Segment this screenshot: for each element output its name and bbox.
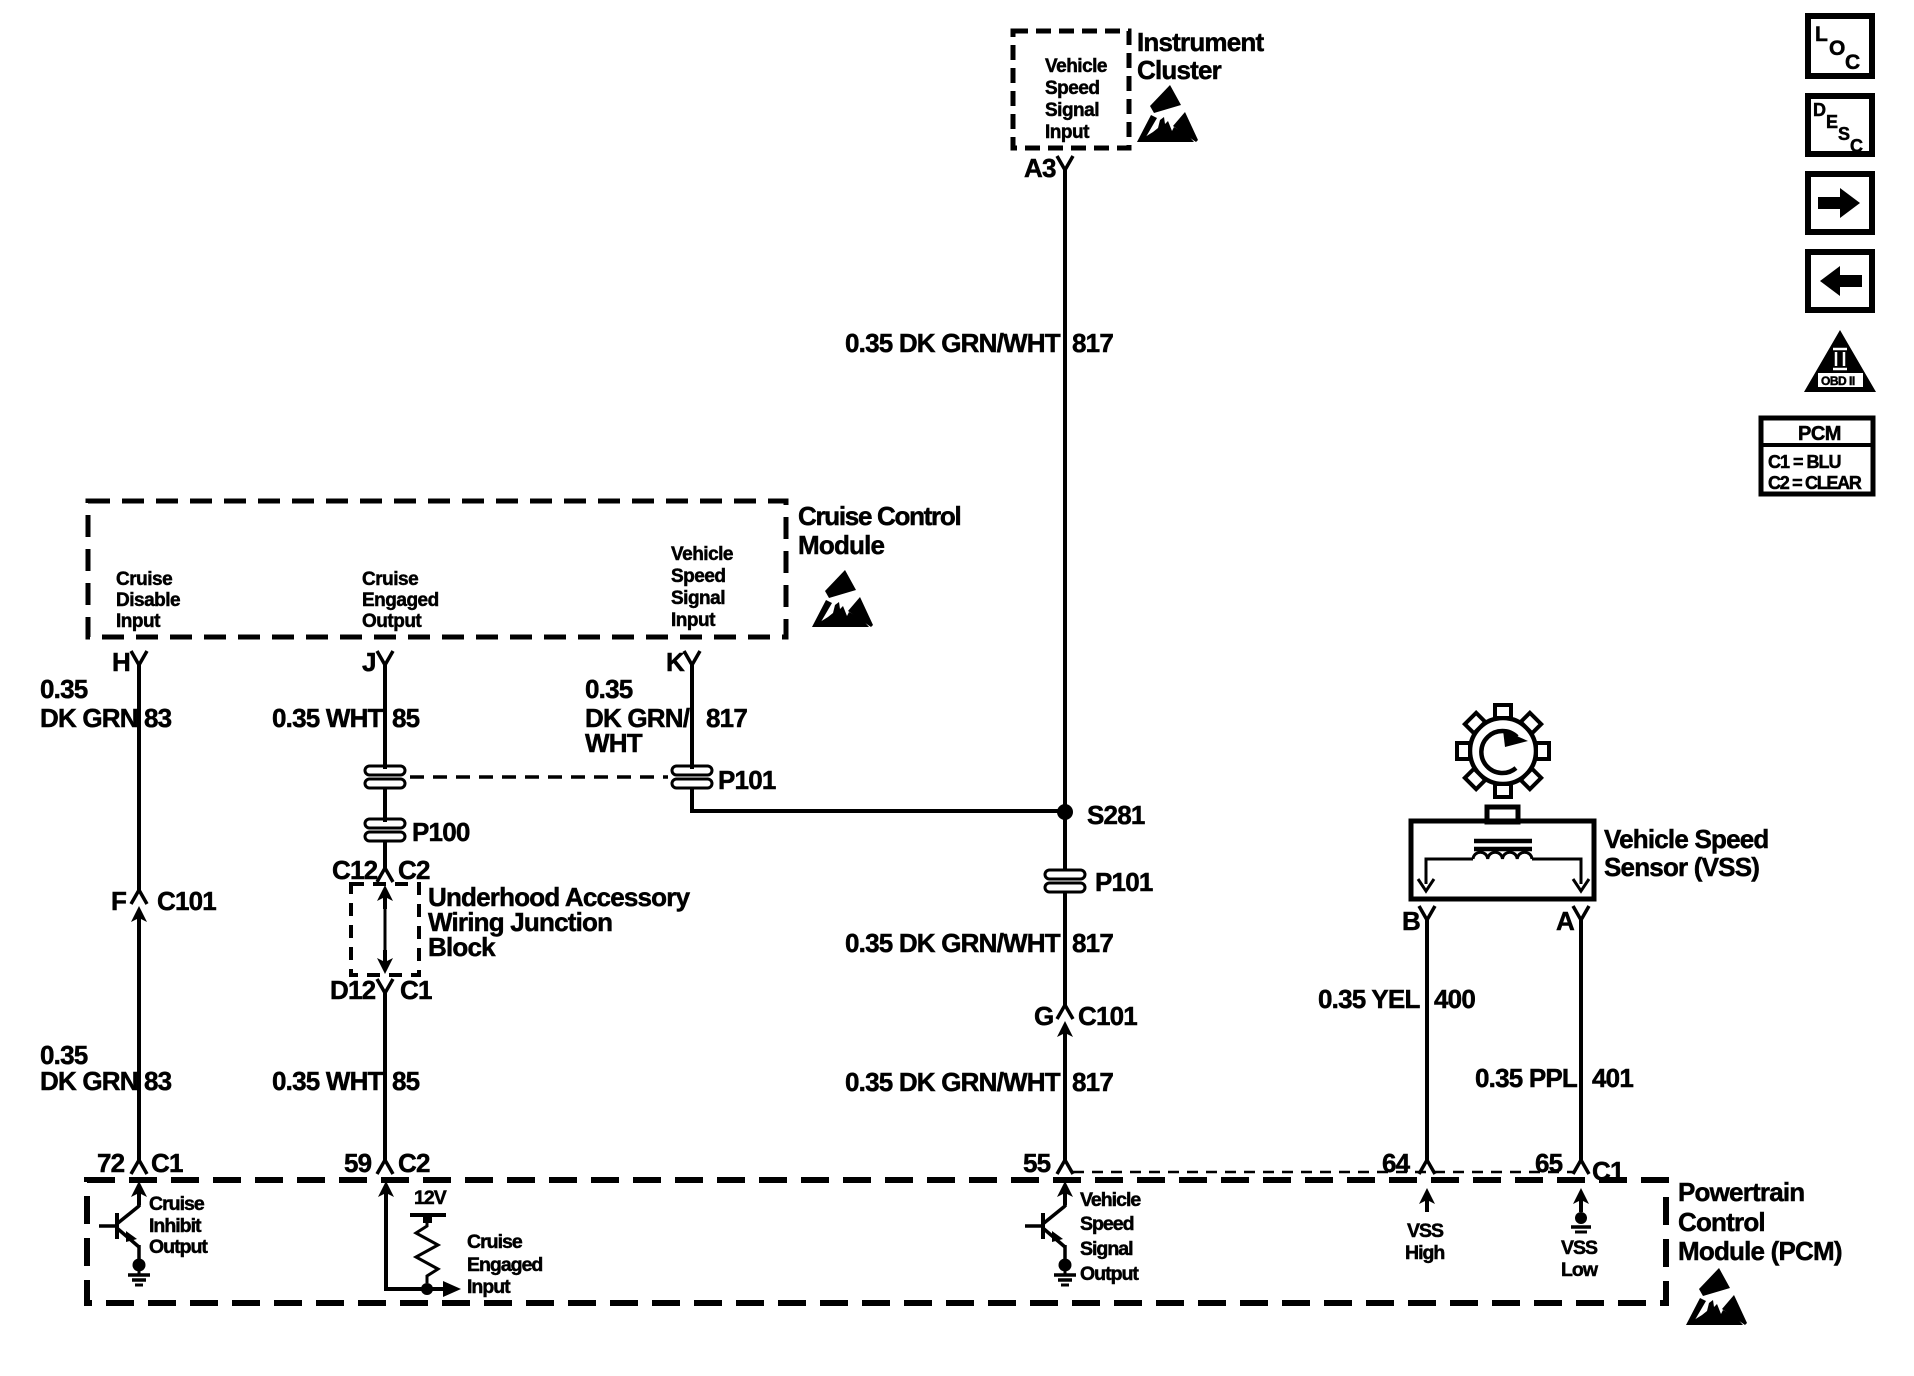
svg-text:0.35 WHT: 0.35 WHT — [272, 703, 384, 733]
svg-text:C: C — [1845, 51, 1860, 74]
VSS internal arrow A (open arrowhead down) — [1573, 879, 1589, 891]
wire between P101 and P100 on J wire — [383, 789, 387, 822]
pin 59 male arrow — [378, 1181, 394, 1205]
svg-text:VSS: VSS — [1407, 1220, 1444, 1242]
svg-text:64: 64 — [1382, 1148, 1411, 1178]
instrument cluster dashed box — [1013, 31, 1129, 148]
wire S281 to P101 — [1063, 812, 1067, 869]
svg-text:Cruise: Cruise — [116, 569, 172, 590]
junction D12 C1 fork — [377, 979, 393, 993]
pin 55 fork — [1057, 1160, 1073, 1174]
wire C101 to pin 55 — [1063, 1040, 1067, 1160]
svg-text:O: O — [1829, 37, 1845, 60]
svg-text:Signal: Signal — [1080, 1238, 1133, 1260]
svg-text:Cruise Control: Cruise Control — [798, 501, 960, 531]
svg-text:0.35: 0.35 — [585, 674, 633, 704]
svg-text:Output: Output — [362, 611, 422, 632]
svg-text:C1: C1 — [400, 975, 432, 1005]
svg-text:C: C — [1850, 136, 1863, 156]
wire from pin 59 down and right — [386, 1200, 443, 1289]
svg-text:H: H — [112, 647, 130, 677]
svg-text:55: 55 — [1023, 1148, 1051, 1178]
ground at pin 65 — [1571, 1212, 1591, 1232]
svg-text:VSS: VSS — [1561, 1237, 1598, 1259]
svg-text:C2: C2 — [398, 1148, 430, 1178]
svg-text:83: 83 — [144, 1066, 172, 1096]
VSS coil — [1473, 852, 1532, 859]
pin H fork — [131, 651, 147, 665]
wire 85 from D12 to pin 59 — [383, 993, 387, 1160]
arrow right cruise engaged input — [443, 1281, 461, 1297]
pin 65 male arrow VSS Low — [1573, 1188, 1589, 1212]
junction G C101 fork — [1057, 1005, 1073, 1019]
svg-text:C12: C12 — [332, 855, 378, 885]
svg-text:Engaged: Engaged — [362, 590, 439, 611]
svg-text:Input: Input — [467, 1276, 511, 1298]
svg-text:D12: D12 — [330, 975, 376, 1005]
resistor cruise engaged input — [416, 1221, 438, 1283]
svg-text:12V: 12V — [414, 1187, 447, 1209]
svg-text:Vehicle: Vehicle — [671, 544, 733, 565]
wire 83 from C101 to pin 72 — [137, 925, 141, 1160]
svg-text:817: 817 — [706, 703, 747, 733]
svg-text:Low: Low — [1561, 1259, 1599, 1281]
svg-text:Disable: Disable — [116, 590, 180, 611]
svg-text:0.35 DK GRN/WHT: 0.35 DK GRN/WHT — [845, 928, 1061, 958]
left arrow nav box — [1808, 252, 1872, 310]
svg-text:72: 72 — [97, 1148, 125, 1178]
svg-text:D: D — [1813, 100, 1826, 120]
OBD II triangle icon — [1804, 330, 1876, 392]
transistor Q cruise inhibit output (pin 72) — [99, 1181, 150, 1285]
connector P101 half on J wire — [365, 766, 405, 788]
junction block C2 male arrow — [377, 885, 393, 909]
svg-text:C1 = BLU: C1 = BLU — [1768, 452, 1841, 472]
splice S281 — [1057, 804, 1073, 820]
svg-text:B: B — [1402, 906, 1420, 936]
wire 401 from A to pin 65 — [1579, 920, 1583, 1160]
svg-text:65: 65 — [1535, 1148, 1563, 1178]
svg-text:Signal: Signal — [1045, 100, 1099, 121]
svg-text:F: F — [111, 886, 126, 916]
svg-text:817: 817 — [1072, 1067, 1113, 1097]
svg-text:WHT: WHT — [585, 728, 643, 758]
VSS core bars — [1474, 839, 1532, 844]
svg-text:Engaged: Engaged — [467, 1254, 542, 1276]
PCM connector legend table — [1761, 418, 1873, 494]
LOC nav box — [1808, 16, 1872, 76]
svg-text:Cruise: Cruise — [362, 569, 418, 590]
svg-text:0.35 DK GRN/WHT: 0.35 DK GRN/WHT — [845, 1067, 1061, 1097]
svg-text:Cluster: Cluster — [1137, 55, 1222, 85]
svg-text:Control: Control — [1678, 1207, 1765, 1237]
wire P100 to C12 — [383, 842, 387, 868]
svg-text:Input: Input — [116, 611, 161, 632]
svg-text:Speed: Speed — [671, 566, 726, 587]
pin A fork — [1573, 906, 1589, 920]
svg-text:0.35: 0.35 — [40, 674, 88, 704]
pin B fork — [1419, 906, 1435, 920]
svg-text:Module: Module — [798, 530, 885, 560]
underhood junction block dashed box — [351, 884, 419, 975]
svg-text:59: 59 — [344, 1148, 372, 1178]
svg-text:Cruise: Cruise — [467, 1231, 523, 1253]
dashed link to P101 — [410, 775, 668, 779]
svg-text:85: 85 — [392, 1066, 420, 1096]
svg-text:DK GRN: DK GRN — [40, 1066, 138, 1096]
pin A3 terminal fork — [1057, 156, 1073, 170]
pin 64 male arrow VSS High — [1419, 1188, 1435, 1212]
wire 817 from A3 to S281 — [1063, 170, 1067, 812]
svg-text:S281: S281 — [1087, 800, 1145, 830]
wire 85 from J to P101 half — [383, 665, 387, 769]
svg-text:C1: C1 — [151, 1148, 183, 1178]
svg-text:P101: P101 — [1095, 867, 1153, 897]
svg-text:P101: P101 — [718, 765, 776, 795]
svg-text:PCM: PCM — [1798, 423, 1841, 445]
svg-text:400: 400 — [1434, 984, 1475, 1014]
svg-text:OBD II: OBD II — [1821, 374, 1855, 388]
svg-text:A: A — [1556, 906, 1575, 936]
12V supply bar — [410, 1213, 446, 1217]
svg-text:0.35 YEL: 0.35 YEL — [1318, 984, 1420, 1014]
VSS internal wires — [1426, 859, 1473, 884]
svg-text:Cruise: Cruise — [149, 1193, 205, 1215]
connector P101 (middle) — [1045, 870, 1085, 892]
pin 59 fork — [377, 1160, 393, 1174]
wire inside junction block — [384, 900, 387, 958]
svg-text:817: 817 — [1072, 928, 1113, 958]
pin 65 fork — [1573, 1160, 1589, 1174]
svg-text:Instrument: Instrument — [1137, 27, 1264, 57]
svg-text:C101: C101 — [157, 886, 216, 916]
svg-text:85: 85 — [392, 703, 420, 733]
ESD icon PCM — [1686, 1268, 1747, 1325]
svg-text:Module (PCM): Module (PCM) — [1678, 1236, 1842, 1266]
svg-text:Signal: Signal — [671, 588, 725, 609]
wire 83 from H to F C101 — [137, 665, 141, 890]
reluctor wheel gear icon — [1457, 705, 1549, 797]
svg-text:83: 83 — [144, 703, 172, 733]
PCM dashed box — [87, 1180, 1666, 1303]
svg-text:Powertrain: Powertrain — [1678, 1177, 1804, 1207]
wire 817 from K down to corner — [690, 665, 694, 769]
junction dot resistor to wire — [421, 1283, 433, 1295]
pin 72 fork — [131, 1160, 147, 1174]
cruise control module dashed box — [88, 501, 786, 637]
svg-text:401: 401 — [1592, 1063, 1633, 1093]
svg-text:Inhibit: Inhibit — [149, 1215, 202, 1237]
svg-text:Speed: Speed — [1080, 1213, 1134, 1235]
svg-text:E: E — [1826, 112, 1838, 132]
svg-text:0.35 WHT: 0.35 WHT — [272, 1066, 384, 1096]
junction C12 C2 fork — [377, 868, 393, 882]
svg-text:Output: Output — [1080, 1263, 1139, 1285]
svg-text:Input: Input — [671, 610, 716, 631]
wire 400 from B to pin 64 — [1425, 920, 1429, 1160]
svg-text:DK GRN: DK GRN — [40, 703, 138, 733]
pin K fork — [684, 651, 700, 665]
transistor Q vehicle speed signal output (pin 55) — [1025, 1181, 1076, 1285]
svg-text:G: G — [1034, 1001, 1053, 1031]
svg-text:Vehicle Speed: Vehicle Speed — [1604, 824, 1768, 854]
svg-text:C101: C101 — [1078, 1001, 1137, 1031]
svg-text:Speed: Speed — [1045, 78, 1100, 99]
svg-text:Block: Block — [428, 932, 496, 962]
svg-text:J: J — [362, 647, 376, 677]
junction G C101 male arrow — [1057, 1021, 1073, 1045]
svg-text:Vehicle: Vehicle — [1045, 56, 1107, 77]
ESD icon cruise control module — [812, 570, 873, 627]
svg-text:S: S — [1838, 124, 1850, 144]
svg-text:Vehicle: Vehicle — [1080, 1189, 1141, 1211]
svg-text:P100: P100 — [412, 817, 470, 847]
pin J fork — [377, 651, 393, 665]
svg-text:A3: A3 — [1024, 153, 1056, 183]
junction F C101 fork — [131, 890, 147, 904]
right arrow nav box — [1808, 174, 1872, 232]
DESC nav box — [1808, 96, 1872, 156]
svg-text:0.35 PPL: 0.35 PPL — [1475, 1063, 1578, 1093]
VSS box top tab — [1487, 807, 1518, 822]
connector C1 thin dashed line — [1073, 1171, 1573, 1174]
VSS internal arrow B (open arrowhead down) — [1418, 879, 1434, 891]
svg-text:K: K — [666, 647, 685, 677]
svg-text:L: L — [1815, 23, 1828, 46]
svg-text:Input: Input — [1045, 122, 1090, 143]
junction F C101 male arrow — [131, 906, 147, 930]
wire from K corner to S281 — [692, 809, 1065, 813]
svg-text:817: 817 — [1072, 328, 1113, 358]
svg-text:C2: C2 — [398, 855, 430, 885]
ESD icon instrument cluster — [1137, 85, 1198, 142]
svg-text:Output: Output — [149, 1236, 208, 1258]
svg-text:Sensor (VSS): Sensor (VSS) — [1604, 852, 1759, 882]
VSS sensor box — [1411, 821, 1594, 899]
svg-text:0.35 DK GRN/WHT: 0.35 DK GRN/WHT — [845, 328, 1061, 358]
connector P101 half on K wire — [672, 766, 712, 788]
svg-text:High: High — [1405, 1242, 1444, 1264]
pin 64 fork — [1419, 1160, 1435, 1174]
connector P100 — [365, 819, 405, 841]
junction block C1 male arrow (down) — [377, 950, 393, 974]
wire P101 to G C101 — [1063, 893, 1067, 1005]
svg-text:C2 = CLEAR: C2 = CLEAR — [1768, 473, 1862, 493]
